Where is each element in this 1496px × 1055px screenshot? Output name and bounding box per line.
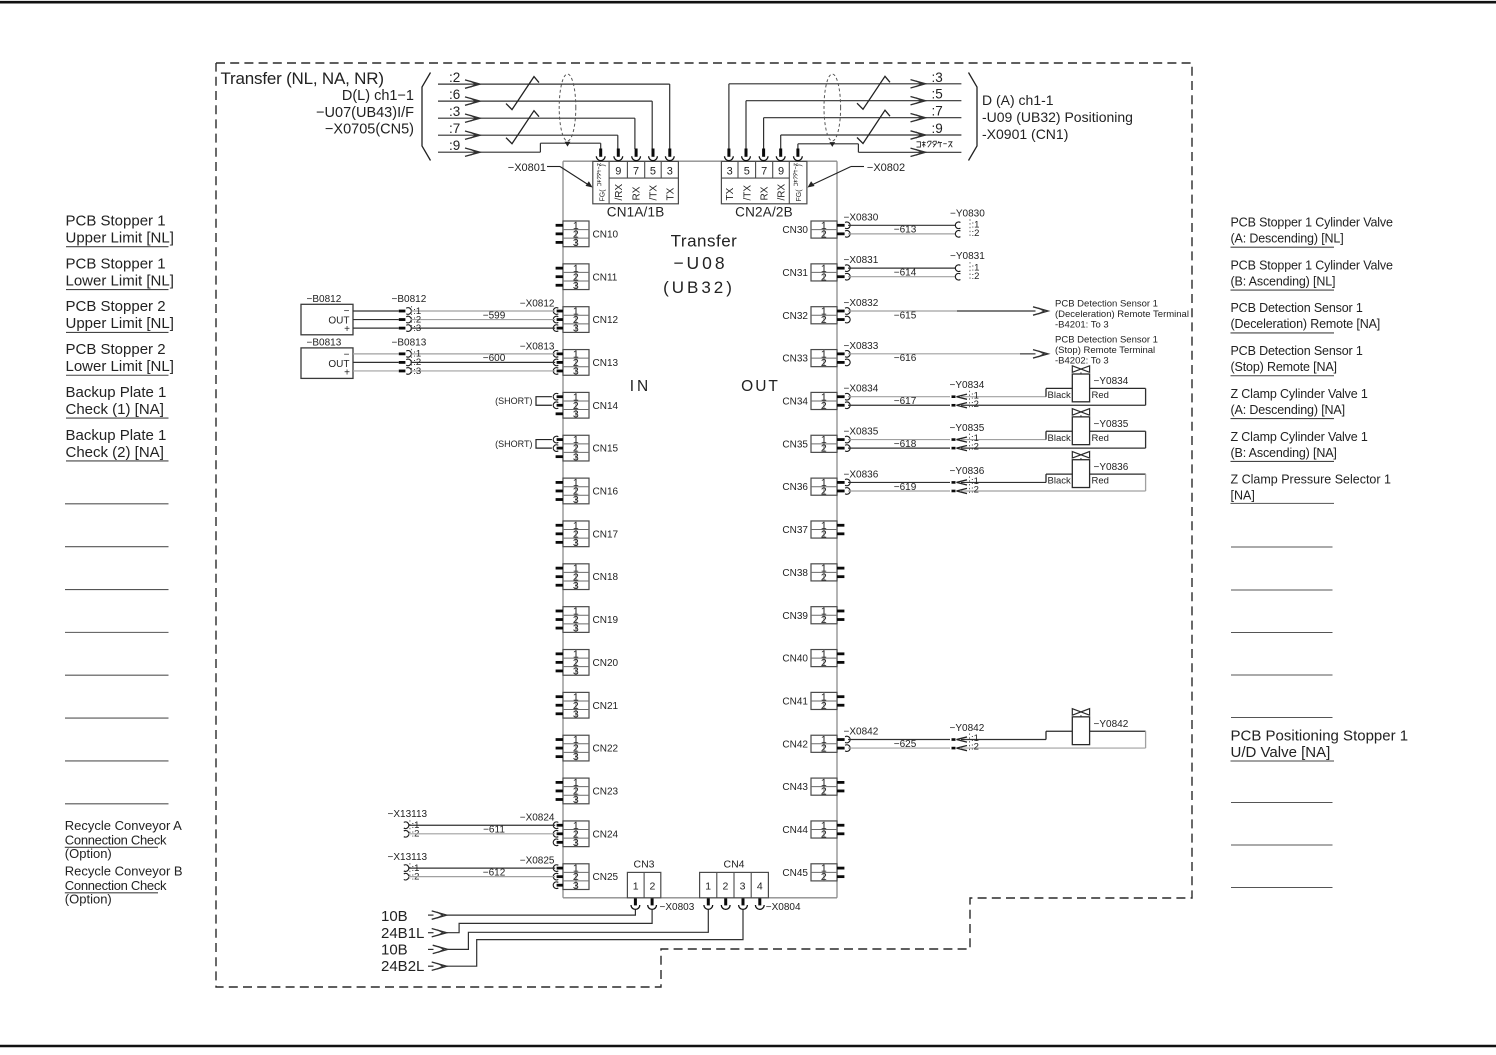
svg-text:5: 5: [744, 166, 750, 178]
unit U08 right edge: [836, 161, 838, 898]
pin 3 of CN22: [556, 755, 563, 758]
svg-text:FG(: FG(: [600, 189, 607, 202]
pin CN4-4: [758, 898, 761, 905]
svg-text:10B: 10B: [381, 908, 408, 925]
pin 3 of CN13: [557, 370, 563, 373]
wire -611 conductor 1: [408, 824, 555, 826]
pin 1 of CN10: [556, 224, 563, 227]
wire cable 2 plug to CN12: [411, 319, 556, 321]
wire -612 conductor 1: [408, 867, 555, 869]
svg-text:CN45: CN45: [782, 868, 808, 879]
pin 2 of CN37: [837, 532, 844, 535]
pin CN3-1: [634, 898, 637, 905]
svg-text:CN4: CN4: [723, 859, 744, 871]
pin 2 of CN45: [837, 875, 844, 878]
svg-text:−B0813: −B0813: [307, 338, 342, 349]
svg-text:Lower Limit [NL]: Lower Limit [NL]: [66, 272, 174, 289]
pin 1 of CN36: [837, 481, 845, 484]
wire -625 conductor 2: [848, 747, 950, 749]
pin 1 of CN14: [557, 395, 563, 398]
svg-text:/RX: /RX: [777, 184, 788, 201]
svg-text:PCB Detection Sensor 1: PCB Detection Sensor 1: [1231, 344, 1363, 358]
pin 3 of CN12: [557, 327, 563, 330]
svg-text:Z Clamp Cylinder Valve 1: Z Clamp Cylinder Valve 1: [1231, 430, 1368, 444]
pin 2 of CN16: [556, 490, 563, 493]
svg-text:Backup Plate 1: Backup Plate 1: [66, 384, 167, 401]
svg-text:−X0830: −X0830: [844, 212, 879, 223]
svg-text:1: 1: [705, 881, 711, 893]
svg-text:−B0812: −B0812: [392, 294, 427, 305]
svg-text:−Y0836: −Y0836: [950, 466, 985, 477]
svg-text:Upper Limit [NL]: Upper Limit [NL]: [66, 315, 174, 332]
svg-text:2: 2: [821, 700, 827, 712]
page top border: [0, 1, 1496, 4]
connector -Y0842 inline marks: [957, 737, 968, 742]
svg-text::3: :3: [413, 323, 421, 334]
wire cable 3 plug to CN13: [411, 370, 556, 372]
svg-text:CN39: CN39: [782, 611, 808, 622]
pin 1 of CN44: [837, 824, 844, 827]
svg-text:CN20: CN20: [593, 658, 619, 669]
svg-text:2: 2: [821, 314, 827, 326]
svg-text:1: 1: [633, 881, 639, 893]
wire -B0813 terminal 2 to plug: [353, 361, 399, 363]
short link on CN14: [536, 397, 552, 406]
svg-text::2: :2: [971, 399, 979, 410]
left blank signal line 4: [65, 631, 169, 633]
connector CN4: [700, 872, 769, 897]
svg-text:−Y0836: −Y0836: [1094, 462, 1129, 473]
svg-text:CN11: CN11: [593, 272, 618, 283]
svg-text:CN32: CN32: [782, 311, 808, 322]
svg-text:−X0842: −X0842: [844, 727, 879, 738]
connector CN21: [563, 691, 589, 720]
svg-text:3: 3: [573, 794, 579, 806]
pin 2 of CN40: [837, 661, 844, 664]
plug pin labels -B0813: [411, 349, 413, 373]
svg-text:2: 2: [821, 400, 827, 412]
wire -611 conductor 2: [408, 833, 555, 835]
svg-text::3: :3: [413, 366, 421, 377]
svg-text:CN22: CN22: [593, 744, 619, 755]
svg-text:−599: −599: [483, 310, 506, 321]
svg-text:−X0825: −X0825: [520, 856, 555, 867]
svg-text:2: 2: [821, 657, 827, 669]
pin 1 of CN34: [837, 395, 845, 398]
connector CN45: [811, 863, 837, 884]
svg-text:3: 3: [740, 881, 746, 893]
connector CN1A/1B: [593, 161, 679, 203]
pin 1 of CN23: [556, 781, 563, 784]
pin 3 of CN25: [557, 884, 563, 887]
svg-text:Red: Red: [1092, 390, 1109, 401]
pin 1 of CN17: [556, 524, 563, 527]
svg-text:3: 3: [667, 166, 673, 178]
pin CN3-2: [651, 898, 654, 905]
svg-text::9: :9: [449, 138, 460, 153]
svg-text:−600: −600: [483, 353, 506, 364]
right blank signal line 4: [1231, 674, 1333, 676]
pin 5 of CN1A: [652, 149, 655, 157]
pin 3 of CN24: [557, 841, 563, 844]
svg-text:CN40: CN40: [782, 654, 808, 665]
pin 1 of CN39: [837, 610, 844, 613]
svg-text::2: :2: [971, 742, 979, 753]
pin 2 of CN30: [837, 232, 845, 235]
connector CN24: [563, 820, 589, 849]
svg-text:(A: Descending) [NA]: (A: Descending) [NA]: [1231, 403, 1345, 417]
svg-text:CN37: CN37: [782, 525, 808, 536]
left blank signal line 3: [65, 589, 169, 591]
pin 1 of CN43: [837, 781, 844, 784]
svg-text::7: :7: [932, 104, 943, 119]
label connector-case (katakana): [917, 141, 953, 147]
pin 1 of CN22: [556, 738, 563, 741]
svg-text:CN17: CN17: [593, 529, 619, 540]
pin 3 of CN18: [556, 584, 563, 587]
connector CN36: [811, 477, 837, 498]
pin 1 of CN16: [556, 481, 563, 484]
svg-text:(Deceleration) Remote [NA]: (Deceleration) Remote [NA]: [1231, 317, 1381, 331]
wire -618 conductor 2: [848, 447, 950, 449]
wire -617 conductor 2: [848, 404, 950, 406]
svg-text:3: 3: [573, 494, 579, 506]
svg-text:TX: TX: [725, 187, 736, 200]
wire -616 to remote terminal: [848, 353, 1020, 355]
svg-text:−X0803: −X0803: [660, 902, 695, 913]
svg-text:−618: −618: [894, 439, 917, 450]
svg-text:−X0833: −X0833: [844, 341, 879, 352]
left blank signal line 8: [65, 803, 169, 805]
svg-text:CN38: CN38: [782, 568, 808, 579]
svg-text:Black: Black: [1048, 433, 1071, 444]
svg-text:(Deceleration) Remote Terminal: (Deceleration) Remote Terminal: [1055, 309, 1189, 320]
svg-text:3: 3: [573, 323, 579, 335]
right blank signal line 1: [1231, 546, 1333, 548]
svg-text:(SHORT): (SHORT): [495, 439, 532, 449]
wire -B0813 terminal 3 to plug: [353, 370, 399, 372]
connector CN37: [811, 520, 837, 541]
pin 1 of CN32: [837, 310, 845, 313]
svg-text:PCB Stopper 1 Cylinder Valve: PCB Stopper 1 Cylinder Valve: [1231, 258, 1394, 272]
pin 2 of CN12: [557, 318, 563, 321]
svg-text:PCB Detection Sensor 1: PCB Detection Sensor 1: [1055, 334, 1158, 345]
pin 2 of CN17: [556, 532, 563, 535]
svg-text:2: 2: [821, 486, 827, 498]
pin CN4-1: [707, 898, 710, 905]
svg-text:CN12: CN12: [593, 315, 619, 326]
plug -X13113 pin arcs (2): [404, 865, 409, 872]
twisted pair symbol right 1: [857, 76, 890, 109]
svg-text:2: 2: [821, 871, 827, 883]
short link on CN15: [536, 440, 552, 449]
right blank signal line 8: [1231, 887, 1333, 889]
pin 2 of CN13: [557, 361, 563, 364]
connector CN10: [563, 220, 589, 249]
pin 2 of CN10: [556, 232, 563, 235]
svg-text:3: 3: [573, 280, 579, 292]
svg-text:CN13: CN13: [593, 358, 619, 369]
wire cable 2 plug to CN13: [411, 361, 556, 363]
pin 2 of CN39: [837, 618, 844, 621]
svg-text:−615: −615: [894, 310, 917, 321]
svg-text:2: 2: [821, 443, 827, 455]
right blank signal line 5: [1231, 717, 1333, 719]
svg-text:Red: Red: [1092, 476, 1109, 487]
svg-text::2: :2: [972, 271, 980, 282]
svg-text:−Y0831: −Y0831: [950, 251, 985, 262]
shield connection marker left: [565, 142, 571, 147]
svg-text:CN25: CN25: [593, 872, 619, 883]
svg-text::6: :6: [449, 87, 460, 102]
svg-text:7: 7: [761, 166, 767, 178]
svg-text:CN18: CN18: [593, 572, 619, 583]
pin 2 of CN44: [837, 832, 844, 835]
connector -Y0830 pin arcs: [955, 222, 960, 229]
svg-text:(SHORT): (SHORT): [495, 396, 532, 406]
connector -Y0835 inline marks: [957, 437, 968, 442]
pin 9 of CN2A: [779, 149, 782, 157]
svg-text::7: :7: [449, 121, 460, 136]
wire :9 (right cable) from CN2A: [780, 135, 782, 149]
unit U08 left edge: [562, 161, 564, 898]
svg-text:−X0705(CN5): −X0705(CN5): [325, 121, 414, 137]
pin 2 of CN14: [557, 404, 563, 407]
pin 1 of CN24: [557, 824, 563, 827]
svg-text:Upper Limit [NL]: Upper Limit [NL]: [66, 230, 174, 247]
pin 2 of CN22: [556, 747, 563, 750]
power wire 10B: [428, 948, 434, 950]
svg-text:−625: −625: [894, 739, 917, 750]
svg-text:CN43: CN43: [782, 782, 808, 793]
pin 2 of CN43: [837, 790, 844, 793]
svg-text:3: 3: [727, 166, 733, 178]
power wire 10B: [428, 914, 434, 916]
svg-text:PCB Stopper 1: PCB Stopper 1: [66, 213, 166, 230]
unit U08 top edge: [563, 160, 837, 162]
pin 1 of CN30: [837, 224, 845, 227]
svg-text:PCB Stopper 2: PCB Stopper 2: [66, 298, 166, 315]
svg-text:-B4201: To 3: -B4201: To 3: [1055, 320, 1109, 331]
pin 5 of CN2A: [745, 149, 748, 157]
svg-text:−X0836: −X0836: [844, 469, 879, 480]
svg-text:D(L) ch1−1: D(L) ch1−1: [342, 88, 414, 104]
svg-text:3: 3: [573, 451, 579, 463]
svg-text:−X13113: −X13113: [388, 809, 428, 820]
shield connection marker right: [829, 142, 835, 147]
pin 3 of CN17: [556, 541, 563, 544]
left blank signal line 5: [65, 674, 169, 676]
svg-text:CN16: CN16: [593, 487, 619, 498]
svg-text:PCB Detection Sensor 1: PCB Detection Sensor 1: [1055, 299, 1158, 310]
svg-text:−X0824: −X0824: [520, 813, 555, 824]
svg-text:−X0801: −X0801: [508, 162, 546, 174]
svg-text:CN30: CN30: [782, 225, 808, 236]
svg-text:−U08: −U08: [673, 253, 727, 273]
pin 1 of CN18: [556, 567, 563, 570]
svg-text:10B: 10B: [381, 941, 408, 958]
pin 2 of CN38: [837, 575, 844, 578]
connector -Y0831 pin arcs: [955, 265, 960, 272]
svg-text:TX: TX: [665, 187, 676, 200]
svg-text:/TX: /TX: [742, 185, 753, 201]
svg-text:2: 2: [649, 881, 655, 893]
wire -B0812 terminal 2 to plug: [353, 319, 399, 321]
svg-text:−X0802: −X0802: [867, 162, 905, 174]
sensor -B0813 box: [301, 348, 353, 379]
wire -618 conductor 1: [848, 439, 950, 441]
connector CN38: [811, 563, 837, 584]
svg-text:Z Clamp Pressure Selector 1: Z Clamp Pressure Selector 1: [1231, 473, 1392, 487]
pin 9 of CN1A: [617, 149, 620, 157]
pin 2 of CN36: [837, 490, 845, 493]
svg-text:RX: RX: [760, 186, 771, 200]
wire -619 conductor 1: [848, 481, 950, 483]
pin 1 of CN40: [837, 652, 844, 655]
pin CN4-2: [724, 898, 727, 905]
connector CN31: [811, 263, 837, 284]
valve -Y0842: [1046, 709, 1146, 748]
svg-text:CN1A/1B: CN1A/1B: [607, 205, 665, 220]
svg-text:−X0813: −X0813: [520, 341, 555, 352]
pin 3 of CN2A: [727, 149, 730, 157]
svg-text:3: 3: [573, 537, 579, 549]
pin 1 of CN33: [837, 352, 845, 355]
svg-text:CN33: CN33: [782, 354, 808, 365]
svg-text:Recycle Conveyor B: Recycle Conveyor B: [65, 864, 183, 879]
svg-text:3: 3: [573, 580, 579, 592]
svg-text:4: 4: [757, 881, 763, 893]
svg-text:−614: −614: [894, 268, 917, 279]
svg-text::2: :2: [971, 442, 979, 453]
svg-text:2: 2: [821, 228, 827, 240]
pin 1 of CN13: [557, 352, 563, 355]
svg-text:−B0813: −B0813: [392, 338, 427, 349]
plug -X13113 pin arcs (1): [404, 822, 409, 829]
svg-text:24B1L: 24B1L: [381, 925, 424, 942]
left blank signal line 1: [65, 503, 169, 505]
svg-text:2: 2: [821, 614, 827, 626]
svg-text:): ): [796, 164, 803, 166]
connector CN3: [627, 872, 660, 897]
wire cable 1 plug to CN13: [411, 353, 556, 355]
svg-text:CN44: CN44: [782, 825, 808, 836]
svg-text:CN23: CN23: [593, 786, 619, 797]
svg-text:−Y0842: −Y0842: [950, 723, 985, 734]
svg-text:3: 3: [573, 837, 579, 849]
power wire 24B1L: [428, 932, 434, 934]
pin 3 of CN20: [556, 670, 563, 673]
pin 1 of CN15: [557, 438, 563, 441]
unit U08 bottom edge: [563, 897, 837, 899]
svg-text:(A: Descending) [NL]: (A: Descending) [NL]: [1231, 232, 1344, 246]
pin 2 of CN35: [837, 447, 845, 450]
connector CN33: [811, 348, 837, 369]
svg-text:3: 3: [573, 623, 579, 635]
pin 1 of CN19: [556, 610, 563, 613]
svg-text:−617: −617: [894, 396, 917, 407]
pin 2 of CN20: [556, 661, 563, 664]
connector -Y0834 inline marks: [957, 394, 968, 399]
svg-text:Transfer: Transfer: [671, 232, 738, 251]
pin 3 of CN15: [556, 455, 563, 458]
svg-text:−X0804: −X0804: [766, 902, 801, 913]
valve -Y0834: [1046, 366, 1146, 405]
svg-text:2: 2: [821, 786, 827, 798]
pin FG of CN2A: [796, 149, 799, 157]
wire cable 3 plug to CN12: [411, 327, 556, 329]
svg-text:3: 3: [573, 237, 579, 249]
pin 7 of CN2A: [762, 149, 765, 157]
svg-text:U/D Valve [NA]: U/D Valve [NA]: [1231, 744, 1331, 761]
pin 3 of CN10: [556, 241, 563, 244]
svg-text::9: :9: [932, 121, 943, 136]
svg-text:−X13113: −X13113: [388, 852, 428, 863]
pin 1 of CN31: [837, 267, 845, 270]
wire -612 conductor 2: [408, 876, 555, 878]
svg-text:2: 2: [821, 528, 827, 540]
svg-text:PCB Stopper 1 Cylinder Valve: PCB Stopper 1 Cylinder Valve: [1231, 216, 1394, 230]
svg-text:2: 2: [821, 271, 827, 283]
svg-text:9: 9: [778, 166, 784, 178]
pin 1 of CN42: [837, 738, 845, 741]
svg-text:−X0835: −X0835: [844, 427, 879, 438]
connector CN42: [811, 734, 837, 755]
svg-text:Z Clamp Cylinder Valve 1: Z Clamp Cylinder Valve 1: [1231, 387, 1368, 401]
valve -Y0835: [1046, 409, 1146, 448]
svg-text:Black: Black: [1048, 390, 1071, 401]
right blank signal line 3: [1231, 632, 1333, 634]
svg-text:7: 7: [633, 166, 639, 178]
svg-text:−Y0835: −Y0835: [950, 423, 985, 434]
right blank signal line 6: [1231, 802, 1333, 804]
pin 1 of CN20: [556, 652, 563, 655]
valve -Y0836: [1046, 452, 1146, 491]
svg-text:IN: IN: [630, 378, 652, 395]
connector CN23: [563, 777, 589, 806]
svg-text:CN15: CN15: [593, 444, 619, 455]
left blank signal line 2: [65, 546, 169, 548]
svg-text:CN42: CN42: [782, 739, 808, 750]
svg-text:−616: −616: [894, 353, 917, 364]
pin 1 of CN25: [557, 867, 563, 870]
svg-text:-B4202: To 3: -B4202: To 3: [1055, 355, 1109, 366]
pin 2 of CN33: [837, 361, 845, 364]
svg-text:2: 2: [821, 828, 827, 840]
connector CN11: [563, 263, 589, 292]
wire :5 (right cable) from CN2A: [745, 101, 747, 149]
pin 1 of CN45: [837, 867, 844, 870]
svg-text:−X0831: −X0831: [844, 255, 879, 266]
wire connector-case (right cable) from CN2A FG: [797, 144, 799, 149]
pin 3 of CN14: [556, 412, 563, 415]
connector CN15: [563, 434, 589, 463]
svg-text:): ): [600, 164, 607, 166]
svg-text:9: 9: [615, 166, 621, 178]
svg-text:2: 2: [722, 881, 728, 893]
connector -Y0836 inline marks: [957, 480, 968, 485]
svg-text:−B0812: −B0812: [307, 294, 342, 305]
connector CN13: [563, 348, 589, 377]
svg-text:−Y0842: −Y0842: [1094, 719, 1129, 730]
wire -B0812 terminal 3 to plug: [353, 327, 399, 329]
svg-text:CN19: CN19: [593, 615, 619, 626]
wire :9 (left cable) to CN1A FG: [438, 151, 540, 153]
pin 3 of CN16: [556, 498, 563, 501]
wire :7 (right cable) from CN2A: [763, 118, 765, 149]
pin 2 of CN34: [837, 404, 845, 407]
twisted pair symbol right 2: [857, 110, 890, 143]
